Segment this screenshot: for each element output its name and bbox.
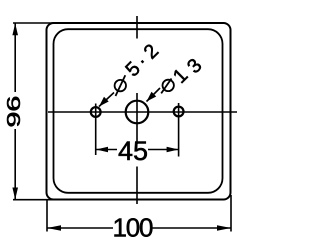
100 dim right arrow <box>217 225 231 230</box>
right hole circle <box>174 107 184 117</box>
45 dim line left segment <box>96 149 117 151</box>
45 dim left arrow <box>96 147 108 153</box>
inner face outline <box>54 29 223 193</box>
100 dim right extension line <box>230 195 232 232</box>
100 dim left arrow <box>47 225 61 230</box>
45 dim right arrow <box>167 147 179 153</box>
45 dim line right segment <box>148 149 179 151</box>
outer bezel outline <box>47 23 231 200</box>
96 dim line lower segment <box>14 129 16 200</box>
96 dim line upper segment <box>14 23 16 92</box>
leader line for 13 hole <box>147 88 161 102</box>
100 dim left extension line <box>46 200 48 232</box>
96 dim top extension line <box>13 22 60 24</box>
96 dim bottom arrow <box>12 188 18 200</box>
100 dim line right segment <box>153 227 232 229</box>
svg-text:96: 96 <box>4 96 25 128</box>
96 dim top arrow <box>12 23 18 35</box>
vertical centerline top segment <box>136 16 138 39</box>
diameter symbol of 5.2 label: slash <box>116 75 126 96</box>
left hole circle <box>91 107 101 117</box>
diameter symbol of 5.2 label: circle <box>115 80 126 91</box>
100 dim line left segment <box>47 227 113 229</box>
center hole circle <box>126 101 149 124</box>
svg-text:45: 45 <box>118 136 148 166</box>
leader line for 5.2 hole <box>99 93 114 107</box>
diameter symbol of 13 label: slash <box>161 79 171 94</box>
svg-text:100: 100 <box>113 213 154 243</box>
leader arrow for 5.2 hole <box>99 97 109 107</box>
leader arrow for 13 hole <box>147 92 157 102</box>
vertical centerline bottom segment <box>136 167 138 205</box>
vertical centerline middle segment <box>136 93 138 144</box>
left hole vertical crosshair and extension line <box>95 104 97 156</box>
96 dim bottom extension line <box>13 199 60 201</box>
horizontal centerline <box>48 111 237 113</box>
diameter symbol of 13 label: circle <box>163 80 174 91</box>
right hole vertical crosshair and extension line <box>178 103 180 157</box>
